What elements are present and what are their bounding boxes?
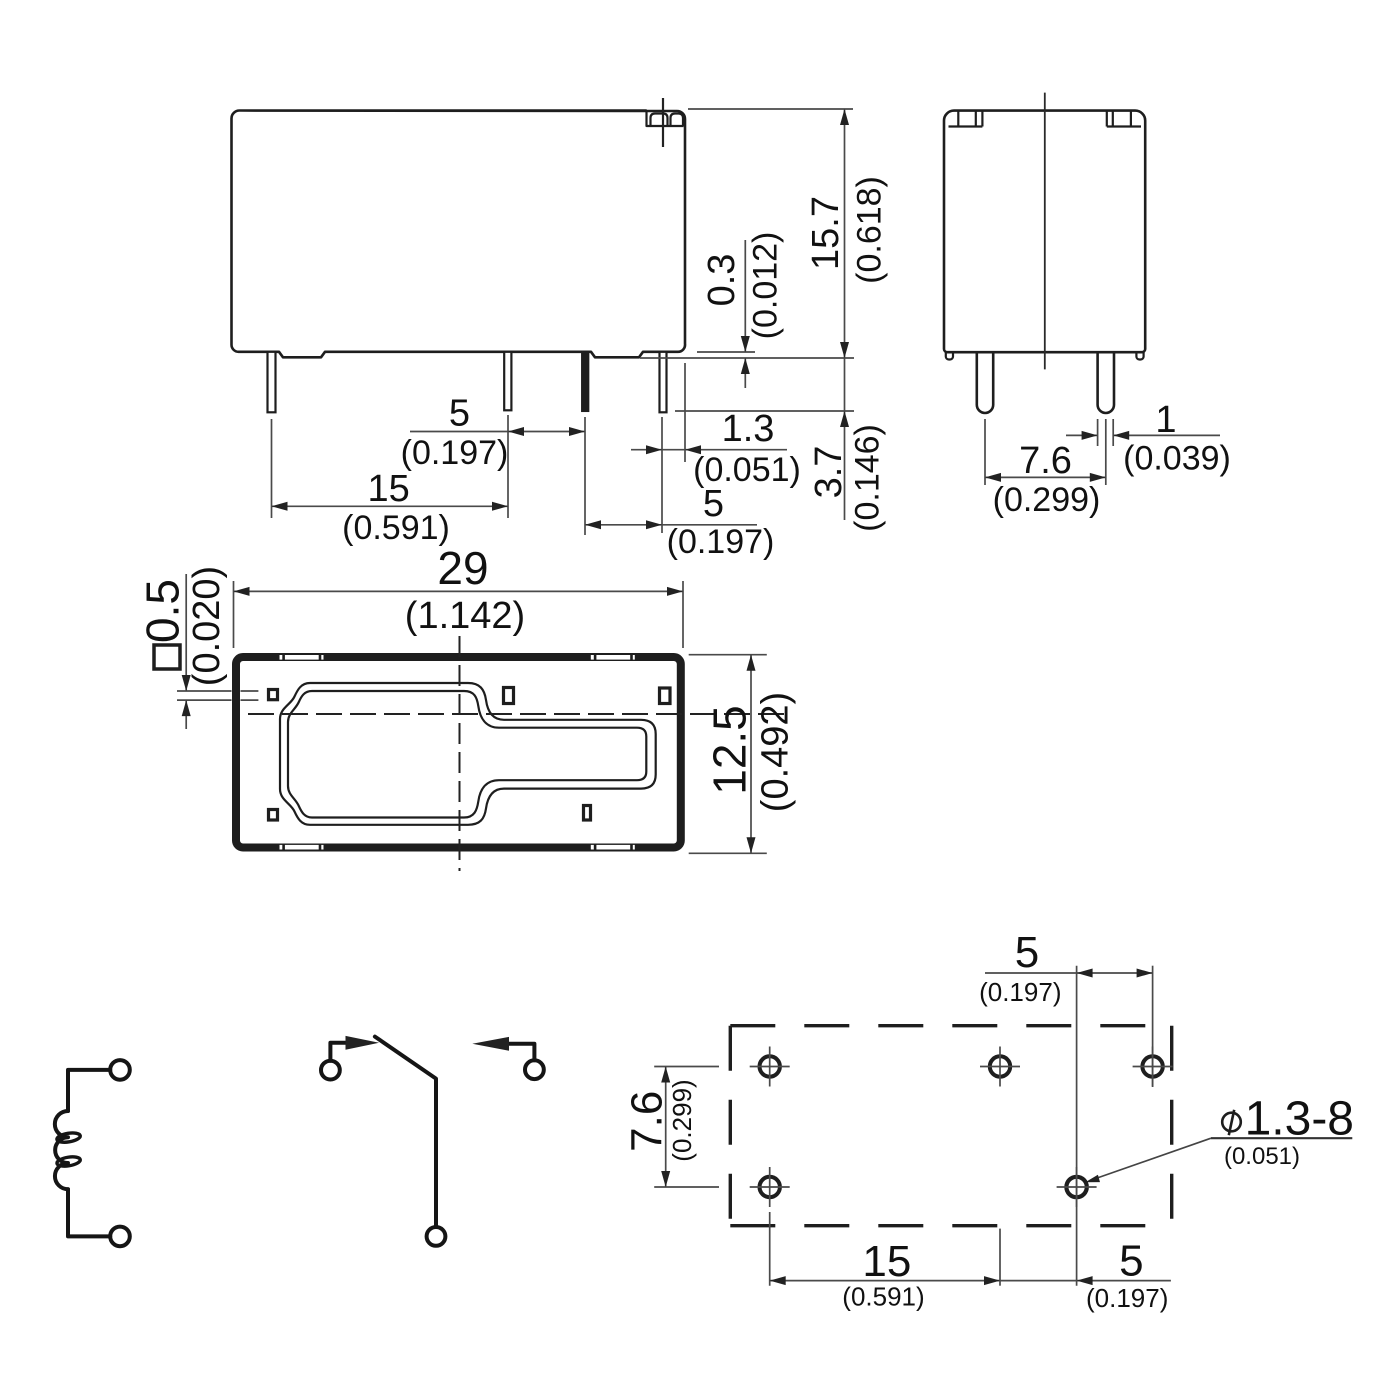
square hole bottom-right (584, 806, 591, 821)
dimension line 12.5 (750, 655, 752, 854)
svg-text:29: 29 (437, 542, 488, 594)
diameter symbol circle (1222, 1113, 1241, 1132)
arrow down tip 0.3 (741, 336, 750, 352)
pcb outline dashed rectangle left edge (729, 1026, 732, 1226)
NC contact terminal circle (525, 1060, 544, 1079)
extension line hole D horizontal (654, 1186, 719, 1188)
square hole top-left (269, 690, 278, 700)
extension line top for 15.7 dim (688, 108, 853, 110)
end view centerline (1044, 93, 1046, 370)
dimension 0.5 lower shaft (185, 700, 187, 729)
top edge slot B window (591, 655, 635, 660)
vent tab arch 2 (671, 114, 684, 127)
square hole top-right (660, 688, 671, 704)
arrow tip left at hole E 5 bottom (1077, 1276, 1093, 1285)
arrow left 15 bottom (770, 1276, 786, 1285)
svg-text:(1.142): (1.142) (405, 595, 525, 637)
coil terminal circle bottom (110, 1227, 130, 1247)
pin 2 (middle pin) (504, 352, 511, 411)
extension line bottom for 12.5 dim (689, 852, 767, 854)
pin 1 (left coil pin) (268, 352, 276, 413)
svg-text:(0.197): (0.197) (1086, 1283, 1168, 1313)
right corner foot (1136, 352, 1143, 359)
extension line hole A horizontal (654, 1066, 719, 1068)
svg-text:1: 1 (1155, 399, 1176, 441)
end view right pin (1098, 353, 1114, 413)
arrow left 5 top (1077, 969, 1093, 978)
right pocket wall (1106, 111, 1108, 127)
extension line pin2 center (507, 415, 509, 518)
square hole bottom-left (269, 810, 278, 821)
square symbol of 0.5 label (154, 645, 180, 669)
hole E crosshair horizontal (1057, 1186, 1097, 1188)
NO contact wire (330, 1043, 346, 1061)
arrow up tip 0.5 (182, 700, 191, 716)
left top pocket bottom line (949, 125, 983, 127)
arrow left 15 (272, 502, 288, 511)
extension line pin3 center (584, 417, 586, 535)
extension line top for 12.5 dim (689, 654, 767, 656)
svg-text:15: 15 (862, 1237, 911, 1286)
extension line hole E vertical long (1076, 966, 1078, 1286)
hole C circle (1142, 1056, 1162, 1076)
hole E circle (1066, 1177, 1086, 1197)
hole C crosshair horizontal (1133, 1066, 1173, 1068)
arrow left 29 (234, 587, 250, 596)
arrow down 12.5 (747, 837, 756, 853)
NO contact arrow (346, 1036, 380, 1050)
vent tab centerline (662, 98, 664, 147)
hole B circle (990, 1056, 1010, 1076)
arrow tip right at 1 dim (1082, 431, 1098, 440)
pcb outline dashed rectangle top edge (730, 1024, 1171, 1027)
bottom slot C tick 2 (319, 844, 322, 851)
hole D circle (760, 1177, 780, 1197)
arrow right 5 top (1137, 969, 1153, 978)
svg-text:7.6: 7.6 (622, 1091, 671, 1152)
coil terminal circle top (110, 1060, 130, 1080)
NO contact terminal circle (321, 1061, 340, 1080)
top slot A tick 2 (319, 654, 322, 661)
bottom view case outer rectangle (236, 657, 681, 848)
top edge slot A window (280, 655, 324, 660)
arrow down 7.6 pcb (661, 1171, 670, 1187)
top slot B tick 2 (630, 654, 633, 661)
arrow right 5 lower (646, 520, 662, 529)
svg-text:(0.492): (0.492) (755, 692, 797, 812)
svg-text:15: 15 (367, 468, 409, 510)
dimension 1 left shaft (1066, 434, 1098, 436)
extension line body right edge (684, 363, 686, 462)
svg-text:0.5: 0.5 (136, 579, 188, 643)
hole A crosshair vertical (769, 1047, 771, 1087)
extension line right edge for 29 dim (682, 581, 684, 648)
left pocket inner rib 1 (957, 111, 959, 127)
hole B crosshair vertical (999, 1047, 1001, 1087)
extension line hole B below (999, 1229, 1001, 1286)
dimension line 15 (272, 505, 509, 507)
keyhole inner wall outer outline (280, 683, 656, 825)
diameter symbol slash (1229, 1110, 1234, 1135)
extension line right pin center (1105, 419, 1107, 485)
seating plane line (640, 357, 854, 359)
svg-text:15.7: 15.7 (805, 196, 847, 270)
svg-text:(0.591): (0.591) (842, 1282, 924, 1312)
coil winding bumps (55, 1111, 68, 1189)
svg-text:0.3: 0.3 (701, 254, 743, 307)
svg-text:(0.051): (0.051) (1224, 1143, 1300, 1170)
extension line hole C vertical (1152, 966, 1154, 1087)
label underline shelf (1211, 1137, 1352, 1139)
extension lines for 0.5 square dim (177, 690, 232, 692)
extension line pin right edge for 1 dim (1112, 419, 1114, 446)
svg-text:(0.618): (0.618) (851, 176, 889, 284)
extension line pin left edge for 1 dim (1097, 419, 1099, 446)
svg-text:1.3: 1.3 (722, 408, 775, 450)
top slot B tick 1 (594, 654, 597, 661)
hole C crosshair vertical (1152, 1047, 1154, 1087)
dimension 0.5 upper shaft (185, 574, 187, 691)
leader line to hole E (1090, 1138, 1211, 1180)
bottom slot C tick 1 (282, 844, 285, 851)
coil loop 1 (56, 1132, 81, 1144)
arrow up at pin tip line for 3.7 (840, 411, 849, 427)
horizontal dashed centerline (248, 713, 786, 715)
svg-text:(0.299): (0.299) (667, 1079, 697, 1161)
bottom edge slot D window (591, 845, 635, 850)
hole E crosshair vertical (1076, 1167, 1078, 1207)
dimension line 5 top (985, 972, 1153, 974)
arrow tip left at body edge 1.3 (685, 445, 701, 454)
arrow right 7.6 (1090, 473, 1106, 482)
arrow down at seating plane (840, 342, 849, 358)
top slot A tick 1 (282, 654, 285, 661)
coil top wire (68, 1070, 110, 1111)
svg-text:7.6: 7.6 (1019, 440, 1072, 482)
hole D crosshair vertical (769, 1167, 771, 1207)
square hole top-middle (504, 688, 514, 704)
hole A circle (760, 1056, 780, 1076)
pin 3 (thick black pin) (582, 352, 589, 412)
arrow right 15 (492, 502, 508, 511)
arrow left 5 upper (508, 427, 524, 436)
arrow tip left at 1 dim (1113, 431, 1129, 440)
right top pocket bottom line (1107, 125, 1141, 127)
svg-text:(0.039): (0.039) (1123, 440, 1231, 478)
keyhole inner wall inner outline (288, 691, 646, 818)
dimension 0.3 lower shaft (744, 358, 746, 388)
dimension line 7.6 left (665, 1067, 667, 1188)
left pocket wall (981, 111, 983, 127)
arrow left 5 lower (585, 520, 601, 529)
svg-text:5: 5 (1015, 928, 1039, 977)
end view left pin (977, 353, 993, 413)
vertical dashed centerline (459, 636, 461, 871)
left corner foot (946, 352, 953, 359)
arrow right 15 bottom shared (984, 1276, 1000, 1285)
dimension line 7.6 (985, 476, 1106, 478)
right pocket inner rib 2 (1130, 111, 1132, 127)
extension line left pin center (984, 419, 986, 485)
arrow up 7.6 pcb (661, 1067, 670, 1083)
svg-text:5: 5 (703, 483, 724, 525)
dimension 0.3 upper shaft (744, 240, 746, 352)
arrow right 5 upper (569, 427, 585, 436)
NC contact arrow (472, 1037, 509, 1051)
extension line lower for 0.5 (177, 699, 232, 701)
arrow tip right at pin4 center 1.3 (646, 445, 662, 454)
right pocket inner rib 1 (1112, 111, 1114, 127)
dimension line 15 bottom (770, 1280, 1171, 1282)
svg-text:(0.146): (0.146) (849, 424, 887, 532)
svg-text:5: 5 (1119, 1236, 1143, 1285)
leader arrowhead (1085, 1175, 1100, 1182)
dimension line 5 lower (585, 524, 757, 526)
svg-text:(0.197): (0.197) (667, 523, 775, 561)
arrow up at top of 15.7 (840, 109, 849, 125)
pcb outline dashed rectangle right edge (1170, 1026, 1173, 1226)
coil loop 2 (56, 1155, 81, 1167)
pin tip line (675, 410, 854, 412)
body bottom extension line for 0.3 dim (697, 351, 755, 353)
NC contact wire (509, 1044, 535, 1061)
dimension line 1.3 (631, 449, 787, 451)
svg-text:(0.197): (0.197) (401, 434, 509, 472)
extension line hole D below (769, 1212, 771, 1286)
left pocket inner rib 2 (975, 111, 977, 127)
svg-text:3.7: 3.7 (808, 446, 850, 499)
hole D crosshair horizontal (750, 1186, 790, 1188)
bottom slot D tick 1 (594, 844, 597, 851)
relay end view body outline (944, 111, 1145, 353)
svg-text:12.5: 12.5 (704, 705, 756, 795)
svg-text:(0.591): (0.591) (342, 509, 450, 547)
extension line left edge for 29 dim (233, 581, 235, 648)
arrow up tip 0.3 (741, 358, 750, 374)
svg-text:5: 5 (449, 393, 470, 435)
armature line (375, 1037, 436, 1227)
arrow down tip 0.5 (182, 675, 191, 691)
dimension 1 right shaft (1113, 434, 1220, 436)
pcb outline dashed rectangle bottom edge (730, 1224, 1171, 1227)
pin 4 (right pin) (660, 352, 667, 413)
common terminal circle (427, 1227, 446, 1246)
bottom slot D tick 2 (630, 844, 633, 851)
svg-text:(0.299): (0.299) (993, 481, 1101, 519)
extension line pin4 center (661, 417, 663, 533)
svg-text:(0.012): (0.012) (747, 232, 785, 340)
relay side view body outline (232, 111, 686, 358)
dimension line 29 (234, 590, 684, 592)
dimension line 15.7 / 3.7 vertical (844, 109, 846, 520)
svg-text:(0.197): (0.197) (979, 977, 1061, 1007)
hole A crosshair horizontal (750, 1066, 790, 1068)
bottom edge slot C window (280, 845, 324, 850)
coil bottom wire (68, 1189, 110, 1236)
arrow left 7.6 (985, 473, 1001, 482)
hole B crosshair horizontal (980, 1066, 1020, 1068)
arrow up 12.5 (747, 655, 756, 671)
dimension line 5 upper (410, 431, 585, 433)
arrow right 29 (667, 587, 683, 596)
svg-text:(0.020): (0.020) (186, 566, 228, 686)
extension line pin1 center (271, 419, 273, 518)
vent tab arch 1 (651, 114, 668, 127)
vent tab pocket at top-right corner (647, 111, 684, 127)
